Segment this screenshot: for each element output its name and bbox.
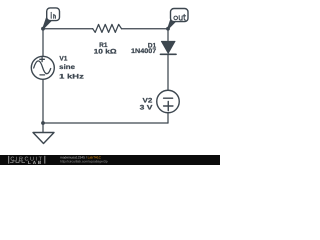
svg-text:sine: sine bbox=[59, 64, 75, 71]
wire D1 to V2 bbox=[167, 54, 169, 90]
svg-text:10 kΩ: 10 kΩ bbox=[94, 48, 118, 55]
node A (in junction) bbox=[41, 27, 45, 31]
wire V1 to ground junction bbox=[42, 80, 44, 133]
watermark bar bbox=[0, 155, 220, 165]
svg-text:V1: V1 bbox=[59, 55, 67, 62]
flag in: text bbox=[51, 12, 55, 18]
ground rail wire bbox=[43, 122, 168, 124]
resistor R1 bbox=[93, 24, 122, 32]
svg-text:1N4007: 1N4007 bbox=[131, 48, 157, 55]
V2 plus sign bbox=[164, 101, 173, 110]
diode D1 cathode bar bbox=[161, 53, 177, 55]
wire V2 to ground rail bbox=[167, 113, 169, 123]
V1 minus sign bbox=[40, 74, 45, 76]
flag out: tail bbox=[168, 17, 176, 29]
wire top left (node in to R1) bbox=[43, 28, 93, 30]
svg-text:http://circuitlab.com/cqsa6sge: http://circuitlab.com/cqsa6sger3p bbox=[60, 160, 108, 164]
diode D1 body bbox=[161, 41, 175, 53]
node C (ground junction) bbox=[41, 121, 45, 125]
svg-text:1 kHz: 1 kHz bbox=[59, 73, 85, 80]
flag out: text bbox=[174, 14, 186, 20]
node B (out junction) bbox=[166, 27, 170, 31]
logo left bar bbox=[8, 156, 9, 164]
logo right bar bbox=[44, 156, 45, 164]
V1 sine symbol bbox=[34, 61, 51, 74]
wire node in down to V1 bbox=[42, 29, 44, 57]
wire top right (R1 to node out) bbox=[122, 28, 169, 30]
svg-text:V2: V2 bbox=[143, 97, 153, 104]
flag in: tail bbox=[43, 17, 51, 29]
flag out: box bbox=[171, 9, 189, 22]
logo waveform bbox=[10, 161, 25, 163]
ground bbox=[33, 133, 54, 144]
flag in: box bbox=[47, 8, 60, 21]
wire node out down to D1 bbox=[167, 29, 169, 42]
V2 minus sign bbox=[164, 97, 173, 99]
voltage source V2 bbox=[157, 90, 180, 113]
svg-text:LAB: LAB bbox=[28, 160, 43, 165]
voltage source V1 bbox=[31, 56, 54, 79]
svg-text:3 V: 3 V bbox=[140, 104, 154, 111]
V1 plus sign bbox=[40, 57, 45, 62]
